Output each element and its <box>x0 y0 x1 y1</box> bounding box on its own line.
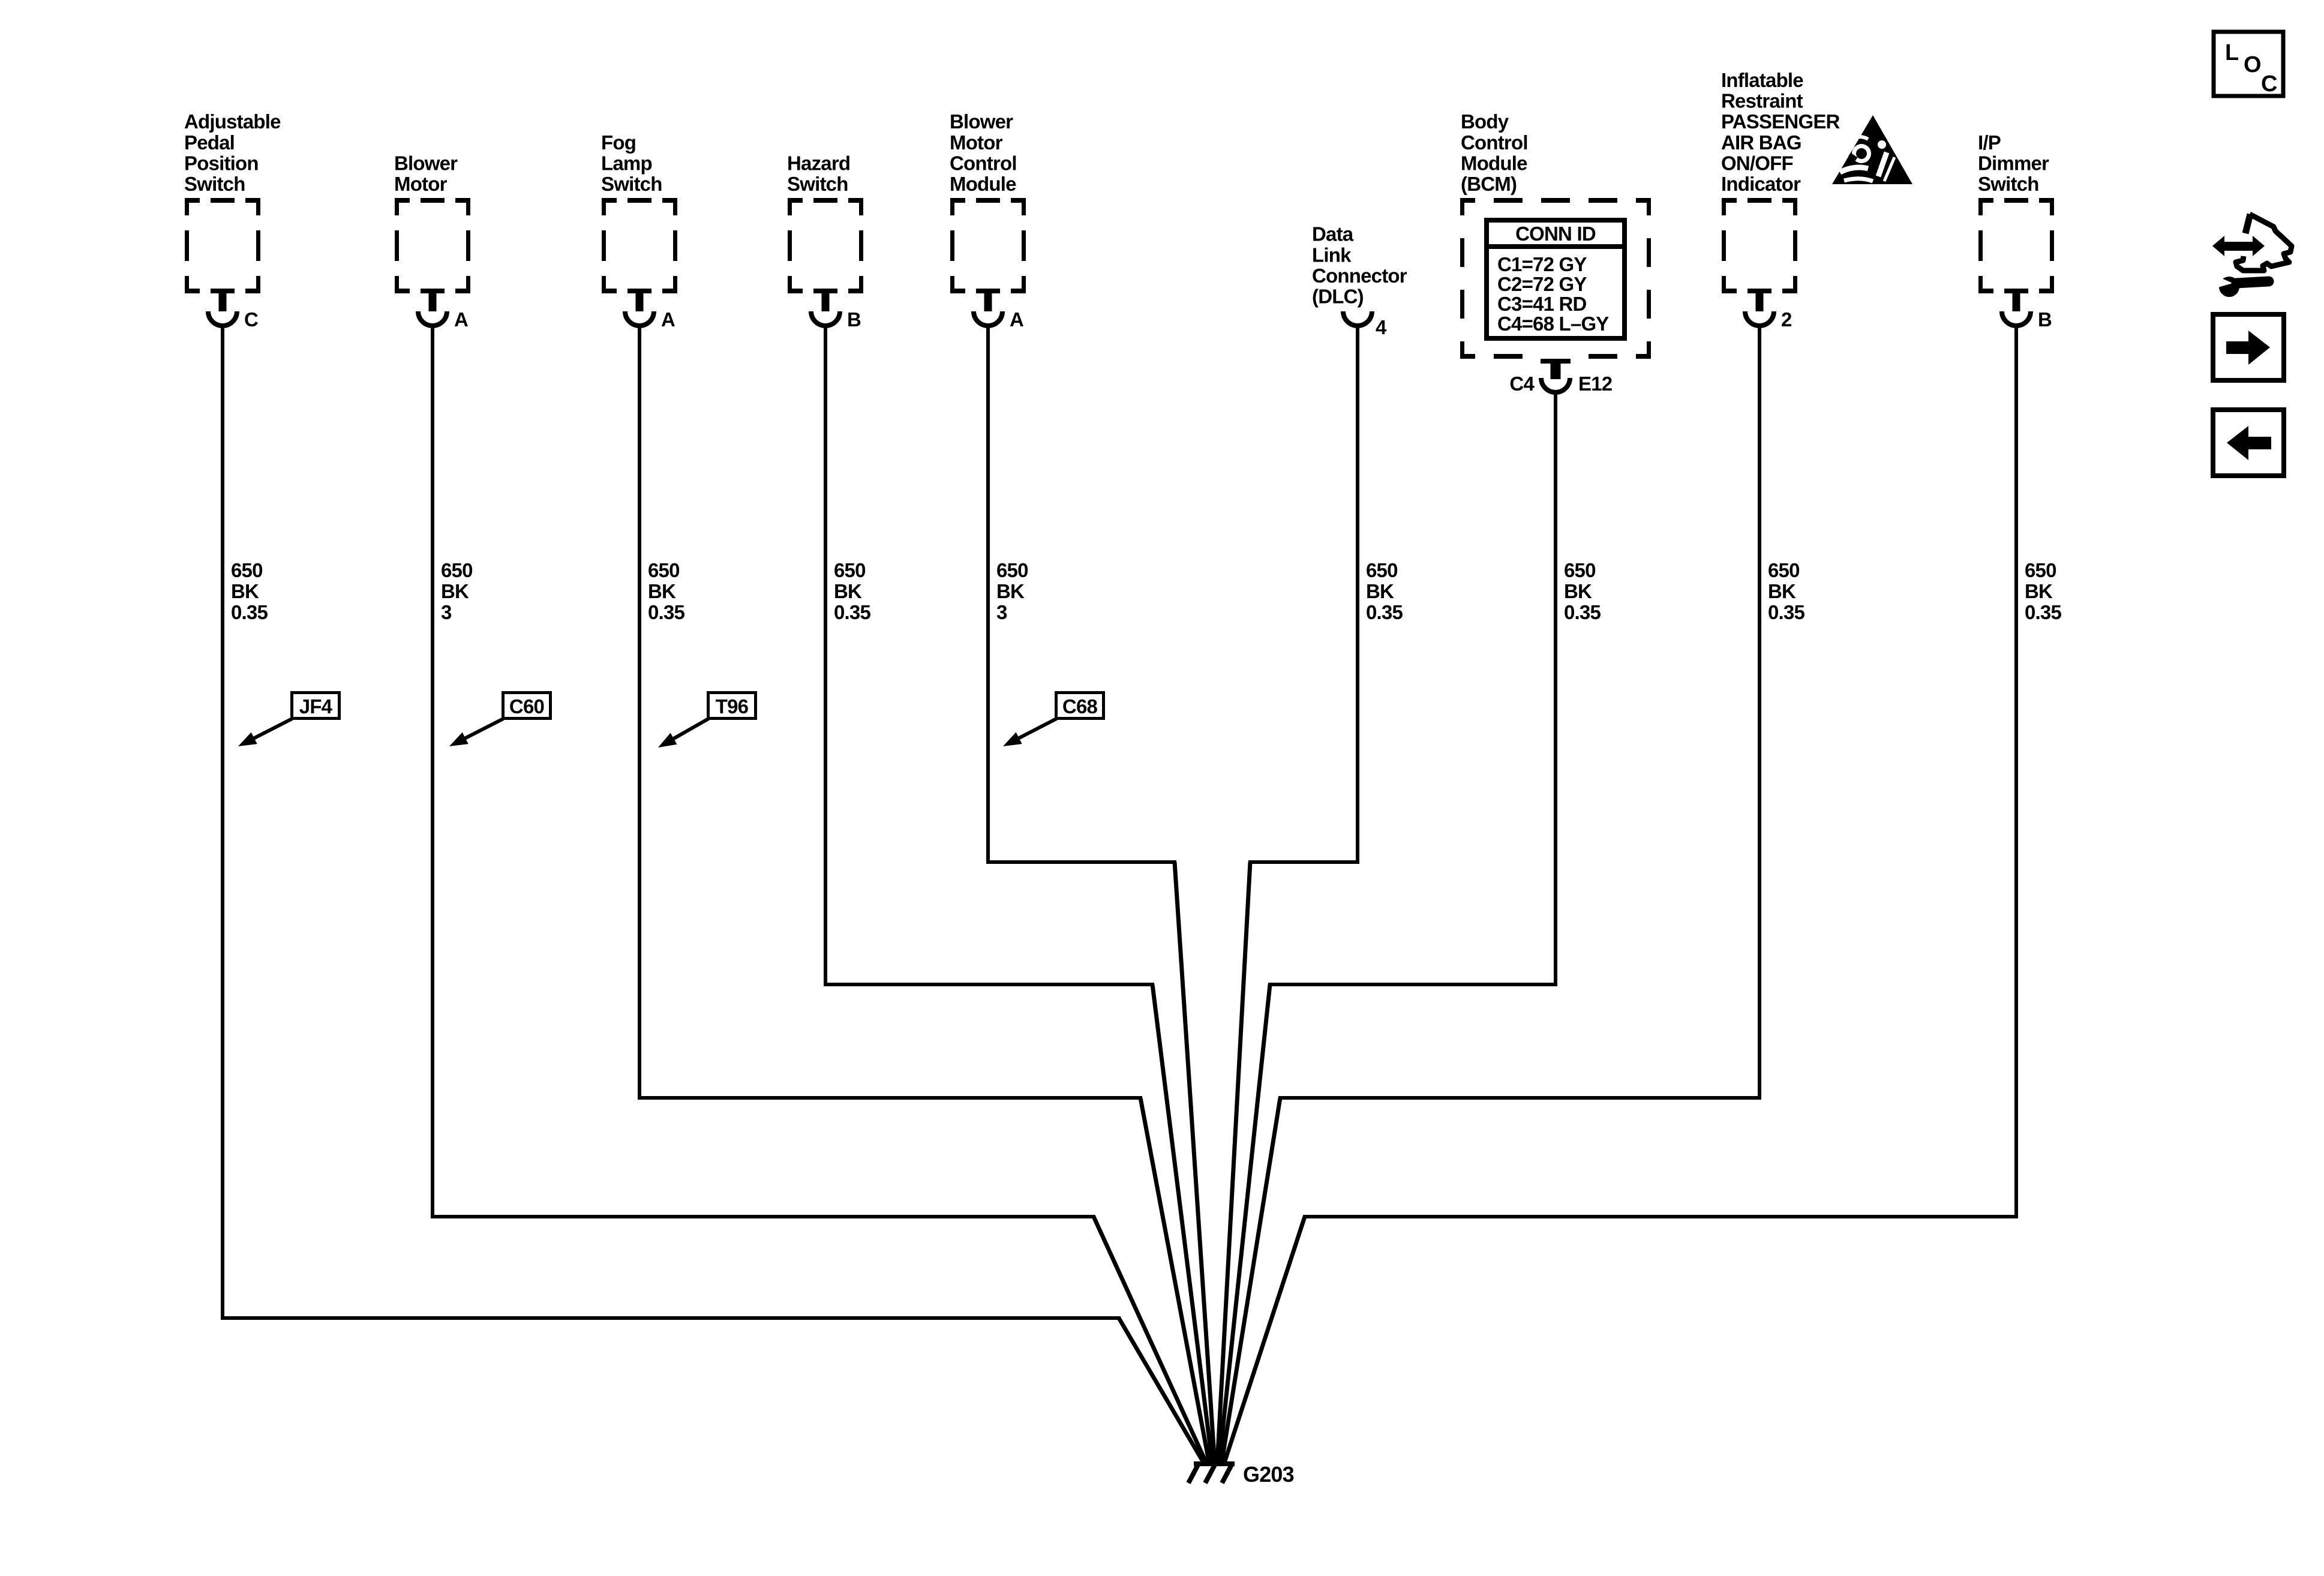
harness callout JF4 <box>238 693 340 747</box>
svg-text:Module: Module <box>1461 152 1527 174</box>
svg-text:BK: BK <box>441 580 469 602</box>
component S3 Hazard Switch label <box>787 152 850 195</box>
component S2 Fog Lamp Switch dashed box <box>602 198 677 293</box>
wire 650 BK from J1 Data Link Connector DLC down to bus <box>1356 325 1359 862</box>
LOC legend box icon <box>2214 32 2283 97</box>
svg-text:Hazard: Hazard <box>787 152 850 174</box>
svg-text:2: 2 <box>1781 308 1792 331</box>
svg-text:PASSENGER: PASSENGER <box>1721 110 1840 133</box>
svg-text:Module: Module <box>950 173 1016 195</box>
component S2 Fog Lamp Switch label <box>601 131 662 195</box>
svg-text:Pedal: Pedal <box>184 131 235 154</box>
connector pin A of S2 Fog Lamp Switch <box>625 289 675 331</box>
svg-text:Switch: Switch <box>1978 173 2039 195</box>
wire 650 BK from S4 I/P Dimmer Switch down to bus <box>2014 325 2018 1217</box>
connector pin 2 of DS1 Passenger Air Bag On/Off Indicator <box>1745 289 1792 331</box>
component S3 Hazard Switch dashed box <box>788 198 863 293</box>
svg-text:CONN ID: CONN ID <box>1515 223 1596 245</box>
svg-text:Inflatable: Inflatable <box>1721 69 1803 91</box>
svg-text:Control: Control <box>1461 131 1528 154</box>
right arrow nav box <box>2213 314 2284 380</box>
wire value label 650 BK 0.35 <box>1564 559 1601 623</box>
svg-text:650: 650 <box>1768 559 1800 581</box>
wire value label 650 BK 0.35 <box>648 559 684 623</box>
component S1 Adjustable Pedal Position Switch dashed box <box>185 198 260 293</box>
wire diagonal to ground splice for S3 Hazard Switch <box>1152 984 1212 1464</box>
svg-text:E12: E12 <box>1578 373 1613 395</box>
wire value label 650 BK 0.35 <box>1366 559 1403 623</box>
svg-text:650: 650 <box>648 559 680 581</box>
svg-text:A: A <box>454 308 468 331</box>
wire diagonal to ground splice for S1 Adjustable Pedal Position Switch <box>1119 1318 1205 1464</box>
svg-text:650: 650 <box>1366 559 1398 581</box>
component M1 Blower Motor dashed box <box>395 198 470 293</box>
svg-text:C2=72 GY: C2=72 GY <box>1497 273 1587 295</box>
svg-text:AIR BAG: AIR BAG <box>1721 131 1801 154</box>
svg-text:0.35: 0.35 <box>1366 601 1403 623</box>
wire 650 BK from DS1 Passenger Air Bag On/Off Indicator down to bus <box>1758 325 1761 1098</box>
component DS1 Passenger Air Bag On/Off Indicator label <box>1721 69 1840 195</box>
wire 650 BK from M1 Blower Motor down to bus <box>431 325 434 1217</box>
svg-text:650: 650 <box>441 559 473 581</box>
svg-text:650: 650 <box>834 559 866 581</box>
wire 650 BK from S3 Hazard Switch down to bus <box>824 325 827 984</box>
wire diagonal to ground splice for S2 Fog Lamp Switch <box>1140 1098 1209 1464</box>
wire horizontal bus segment for S3 Hazard Switch <box>824 983 1154 986</box>
svg-text:B: B <box>847 308 861 331</box>
svg-text:B: B <box>2038 308 2052 331</box>
svg-text:650: 650 <box>2025 559 2056 581</box>
wire horizontal bus segment for J1 Data Link Connector DLC <box>1248 860 1359 864</box>
wire diagonal to ground splice for DS1 Passenger Air Bag On/Off Indicator <box>1221 1098 1280 1464</box>
component S4 I/P Dimmer Switch dashed box <box>1978 198 2054 293</box>
component U1 Blower Motor Control Module label <box>950 110 1017 195</box>
svg-text:C60: C60 <box>509 695 544 718</box>
wire value label 650 BK 0.35 <box>231 559 268 623</box>
svg-text:C4: C4 <box>1509 373 1535 395</box>
svg-text:BK: BK <box>1564 580 1592 602</box>
component S1 Adjustable Pedal Position Switch label <box>184 110 281 195</box>
wire horizontal bus segment for S2 Fog Lamp Switch <box>638 1096 1142 1100</box>
wire value label 650 BK 3 <box>441 559 473 623</box>
left arrow nav box <box>2213 410 2284 476</box>
svg-text:Switch: Switch <box>601 173 662 195</box>
svg-text:L: L <box>2225 40 2239 65</box>
wire horizontal bus segment for DS1 Passenger Air Bag On/Off Indicator <box>1278 1096 1761 1100</box>
svg-text:0.35: 0.35 <box>1768 601 1804 623</box>
connector pin A of U1 Blower Motor Control Module <box>974 289 1023 331</box>
svg-text:3: 3 <box>441 601 452 623</box>
svg-text:C1=72 GY: C1=72 GY <box>1497 253 1587 275</box>
component J1 Data Link Connector DLC label <box>1312 223 1407 308</box>
svg-text:C68: C68 <box>1062 695 1098 718</box>
svg-text:BK: BK <box>231 580 259 602</box>
harness callout C60 <box>449 693 551 747</box>
svg-text:Indicator: Indicator <box>1721 173 1801 195</box>
svg-text:Switch: Switch <box>184 173 245 195</box>
wire horizontal bus segment for S4 I/P Dimmer Switch <box>1303 1215 2018 1218</box>
wire 650 BK from U1 Blower Motor Control Module down to bus <box>986 325 990 862</box>
svg-text:BK: BK <box>834 580 862 602</box>
svg-text:C4=68 L–GY: C4=68 L–GY <box>1497 313 1609 335</box>
svg-text:A: A <box>1010 308 1023 331</box>
wire diagonal to ground splice for S4 I/P Dimmer Switch <box>1224 1217 1305 1464</box>
svg-text:A: A <box>661 308 675 331</box>
svg-text:BK: BK <box>648 580 676 602</box>
svg-text:(BCM): (BCM) <box>1461 173 1517 195</box>
svg-text:BK: BK <box>1768 580 1796 602</box>
wire value label 650 BK 0.35 <box>1768 559 1804 623</box>
diagnostic wrench icon <box>2212 214 2292 297</box>
svg-text:Body: Body <box>1461 110 1509 133</box>
svg-text:3: 3 <box>996 601 1007 623</box>
wire horizontal bus segment for S1 Adjustable Pedal Position Switch <box>221 1316 1121 1320</box>
wire 650 BK from S1 Adjustable Pedal Position Switch down to bus <box>221 325 224 1318</box>
wire diagonal to ground splice for U2 Body Control Module BCM <box>1219 984 1270 1464</box>
svg-text:0.35: 0.35 <box>834 601 870 623</box>
svg-text:BK: BK <box>2025 580 2053 602</box>
component U1 Blower Motor Control Module dashed box <box>950 198 1026 293</box>
connector C4 / E12 of BCM <box>1509 359 1612 395</box>
wire diagonal to ground splice for U1 Blower Motor Control Module <box>1175 862 1215 1464</box>
svg-text:650: 650 <box>996 559 1028 581</box>
harness callout C68 <box>1003 693 1104 747</box>
svg-text:Motor: Motor <box>394 173 448 195</box>
svg-text:Restraint: Restraint <box>1721 90 1803 112</box>
wire value label 650 BK 0.35 <box>834 559 870 623</box>
svg-text:ON/OFF: ON/OFF <box>1721 152 1793 174</box>
svg-text:4: 4 <box>1376 316 1387 338</box>
ground G203 symbol <box>1188 1463 1235 1483</box>
svg-text:650: 650 <box>1564 559 1596 581</box>
svg-text:JF4: JF4 <box>299 695 333 718</box>
component DS1 Passenger Air Bag On/Off Indicator dashed box <box>1722 198 1797 293</box>
svg-text:I/P: I/P <box>1978 131 2001 154</box>
airbag warning triangle icon <box>1832 115 1912 184</box>
svg-text:Fog: Fog <box>601 131 636 154</box>
svg-text:Blower: Blower <box>950 110 1013 133</box>
wire 650 BK from S2 Fog Lamp Switch down to bus <box>638 325 641 1098</box>
svg-text:Position: Position <box>184 152 259 174</box>
connector pin B of S3 Hazard Switch <box>811 289 861 331</box>
svg-text:BK: BK <box>1366 580 1394 602</box>
wire diagonal to ground splice for M1 Blower Motor <box>1094 1217 1207 1464</box>
wire 650 BK from U2 Body Control Module BCM down to bus <box>1554 391 1557 984</box>
svg-text:G203: G203 <box>1243 1462 1294 1487</box>
svg-text:Control: Control <box>950 152 1017 174</box>
svg-text:Data: Data <box>1312 223 1354 245</box>
connector pin B of S4 I/P Dimmer Switch <box>2002 289 2052 331</box>
svg-text:Link: Link <box>1312 244 1352 266</box>
svg-text:Connector: Connector <box>1312 265 1407 287</box>
svg-text:T96: T96 <box>716 695 749 718</box>
wire value label 650 BK 3 <box>996 559 1028 623</box>
component U2 Body Control Module BCM label <box>1461 110 1528 195</box>
svg-text:C: C <box>2261 71 2277 97</box>
wire horizontal bus segment for M1 Blower Motor <box>431 1215 1095 1218</box>
svg-text:650: 650 <box>231 559 263 581</box>
svg-text:Lamp: Lamp <box>601 152 652 174</box>
svg-text:Switch: Switch <box>787 173 848 195</box>
U2 BCM CONN ID table <box>1487 220 1625 338</box>
connector pin 4 of DLC <box>1343 311 1387 338</box>
svg-text:Dimmer: Dimmer <box>1978 152 2049 174</box>
wire horizontal bus segment for U1 Blower Motor Control Module <box>986 860 1176 864</box>
svg-text:Adjustable: Adjustable <box>184 110 281 133</box>
wire horizontal bus segment for U2 Body Control Module BCM <box>1268 983 1557 986</box>
svg-text:Motor: Motor <box>950 131 1003 154</box>
svg-text:C: C <box>244 308 258 331</box>
connector pin C of S1 Adjustable Pedal Position Switch <box>208 289 258 331</box>
harness callout T96 <box>658 693 756 748</box>
svg-text:BK: BK <box>996 580 1025 602</box>
component U2 BCM dashed box <box>1460 198 1651 359</box>
connector pin A of M1 Blower Motor <box>418 289 468 331</box>
component S4 I/P Dimmer Switch label <box>1978 131 2049 195</box>
wire diagonal to ground splice for J1 Data Link Connector DLC <box>1217 862 1250 1464</box>
svg-text:Blower: Blower <box>394 152 458 174</box>
svg-text:0.35: 0.35 <box>1564 601 1601 623</box>
wire value label 650 BK 0.35 <box>2025 559 2061 623</box>
svg-text:0.35: 0.35 <box>648 601 684 623</box>
svg-text:C3=41 RD: C3=41 RD <box>1497 293 1587 315</box>
svg-text:0.35: 0.35 <box>2025 601 2061 623</box>
svg-text:O: O <box>2244 52 2261 77</box>
component M1 Blower Motor label <box>394 152 458 195</box>
svg-text:0.35: 0.35 <box>231 601 268 623</box>
svg-text:(DLC): (DLC) <box>1312 286 1364 308</box>
